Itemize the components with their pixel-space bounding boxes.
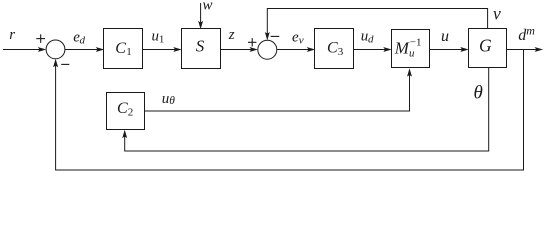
svg-text:u: u — [152, 28, 160, 44]
wire S to SUM2 — [221, 49, 256, 51]
wire G output dm — [507, 49, 542, 51]
summer SUM1 — [46, 40, 65, 59]
arrowhead into S — [173, 47, 182, 52]
svg-text:G: G — [479, 36, 492, 56]
wire C1 to S — [143, 49, 180, 51]
svg-text:−1: −1 — [410, 37, 422, 49]
arrowhead u_theta into Mu — [407, 68, 412, 77]
arrowhead dm output — [535, 47, 544, 52]
minus sign SUM1 — [61, 63, 69, 65]
svg-text:v: v — [299, 34, 304, 46]
arrowhead into C1 — [96, 47, 105, 52]
plus sign SUM2 — [248, 41, 256, 43]
block Mu^-1 — [392, 30, 430, 68]
summer SUM2 — [258, 40, 277, 59]
svg-text:1: 1 — [126, 46, 132, 58]
wire v feedback loop — [267, 9, 487, 39]
svg-text:M: M — [394, 39, 410, 58]
arrowhead into SUM2 — [249, 47, 258, 52]
svg-text:C: C — [117, 100, 128, 117]
wire u_theta path C2 to Mu — [145, 70, 410, 111]
svg-text:u: u — [162, 91, 170, 107]
block S — [182, 29, 221, 69]
arrowhead w into S — [198, 21, 203, 30]
wire w input — [200, 3, 202, 27]
svg-text:d: d — [368, 33, 374, 45]
wire C3 to Mu — [354, 49, 390, 51]
wire Mu to G — [430, 49, 467, 51]
arrowhead v into SUM2 — [265, 32, 270, 41]
svg-text:S: S — [196, 36, 205, 55]
arrowhead theta loop into C2 — [122, 130, 127, 139]
arrowhead into Mu — [383, 47, 392, 52]
block C3 — [315, 29, 354, 69]
block C2 — [107, 93, 145, 130]
svg-text:2: 2 — [128, 106, 134, 118]
svg-text:3: 3 — [338, 46, 344, 58]
arrowhead outer loop into SUM1 — [53, 59, 58, 68]
svg-text:w: w — [203, 0, 213, 13]
svg-text:v: v — [493, 4, 501, 24]
wire SUM1 to C1 — [65, 49, 102, 51]
svg-text:r: r — [9, 27, 15, 43]
arrowhead into SUM1 — [38, 47, 47, 52]
arrowhead into C3 — [307, 47, 316, 52]
minus sign SUM2 — [271, 35, 280, 37]
svg-text:C: C — [115, 40, 126, 57]
block C1 — [104, 29, 143, 69]
wire outer dm feedback loop — [56, 50, 524, 171]
svg-text:z: z — [228, 27, 235, 43]
wire r input — [3, 49, 44, 51]
svg-text:θ: θ — [169, 95, 175, 107]
svg-text:u: u — [409, 48, 415, 60]
arrowhead into G — [460, 47, 469, 52]
plus sign SUM1 — [36, 38, 45, 40]
wire SUM2 to C3 — [277, 49, 313, 51]
wire theta feedback loop — [125, 68, 489, 152]
block G — [469, 29, 507, 68]
svg-text:C: C — [327, 40, 338, 57]
svg-text:m: m — [526, 23, 535, 37]
svg-text:u: u — [441, 28, 449, 45]
svg-text:d: d — [80, 35, 86, 47]
svg-text:1: 1 — [159, 33, 165, 45]
svg-text:θ: θ — [474, 83, 483, 104]
